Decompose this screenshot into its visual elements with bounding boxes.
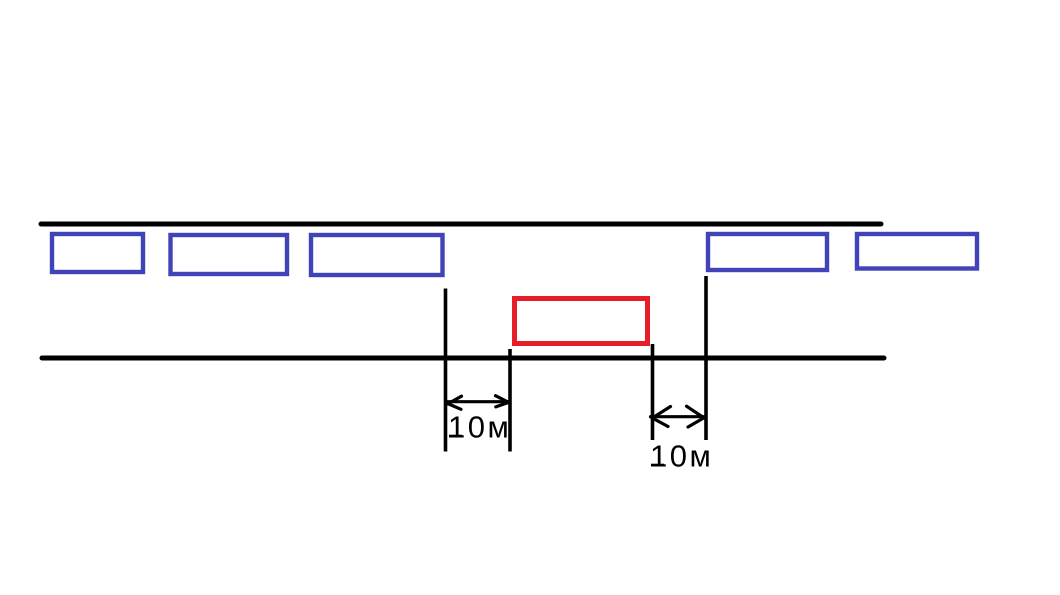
svg-text:10м: 10м [650,439,713,474]
dimension vertical line at front of car 4 [704,276,708,440]
bottom road edge line [42,356,884,361]
right gap double arrow [651,406,706,427]
blue car 2 [171,235,288,274]
dimension vertical line at right of red car [651,344,655,440]
dimension vertical line at rear of car 3 [444,289,448,452]
blue car 4 [708,234,827,270]
dimension vertical line at left of red car [508,349,512,452]
blue car 5 [857,234,977,269]
red car [515,299,648,344]
left gap double arrow [447,396,509,410]
blue car 1 [52,234,143,272]
svg-text:10м: 10м [448,410,511,445]
left label foot of digit 1 [449,435,462,438]
top road edge line [41,222,881,227]
right label foot of digit 1 [651,464,664,467]
blue car 3 [311,235,443,275]
